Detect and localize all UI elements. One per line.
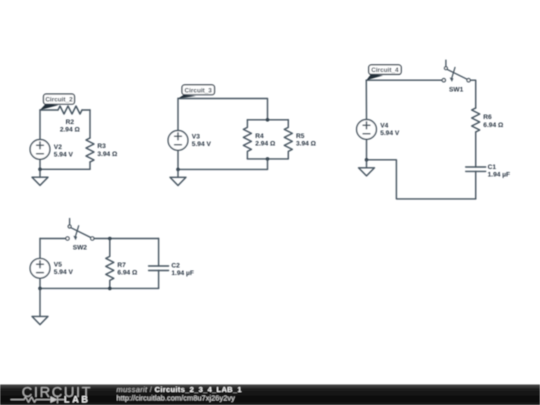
switch SW1 (442, 60, 470, 82)
node parallel top junction (266, 118, 270, 122)
wire top (to SW2) (40, 238, 66, 240)
wire left lower (177, 150, 179, 169)
svg-text:mussarit / Circuits_2_3_4_LAB_: mussarit / Circuits_2_3_4_LAB_1 (117, 385, 242, 394)
node R7 top junction (108, 237, 112, 241)
label C2 value (171, 262, 194, 277)
wire left upper (365, 80, 367, 119)
svg-text:6.94 Ω: 6.94 Ω (117, 270, 138, 277)
wire top (V2 to R2 to right corner) (40, 109, 90, 111)
svg-text:SW2: SW2 (73, 245, 88, 252)
voltage source V4 (357, 119, 377, 139)
wire bottom (40, 168, 90, 170)
wire bottom (178, 168, 268, 170)
wire bottom return (367, 160, 476, 199)
svg-text:http://circuitlab.com/cm8u7xj2: http://circuitlab.com/cm8u7xj26y2vy (117, 394, 236, 403)
svg-text:R7: R7 (117, 262, 126, 269)
svg-text:5.94 V: 5.94 V (54, 151, 74, 158)
svg-text:LAB: LAB (64, 394, 91, 404)
ground (32, 288, 48, 324)
svg-text:1.94 µF: 1.94 µF (171, 270, 194, 277)
wire top (178, 99, 268, 120)
wire parallel top bar (247, 119, 288, 121)
svg-text:Circuit_3: Circuit_3 (185, 87, 213, 94)
wire down to C2 (158, 239, 160, 267)
wire left lower (39, 159, 41, 169)
ground (32, 169, 48, 185)
ground (170, 169, 186, 185)
svg-text:R5: R5 (296, 133, 305, 140)
svg-text:2.94 Ω: 2.94 Ω (255, 140, 276, 147)
node V4 bottom junction (365, 158, 369, 162)
logo diode triangle (51, 396, 58, 403)
svg-text:Circuit_2: Circuit_2 (45, 97, 73, 104)
resistor R7 (106, 239, 114, 289)
label V2 value (54, 144, 74, 158)
svg-text:C1: C1 (488, 164, 497, 171)
switch SW2 (66, 219, 94, 241)
label V5 value (54, 261, 74, 276)
label C1 value (488, 164, 511, 179)
resistor R5 (284, 120, 292, 159)
voltage source V3 (168, 131, 188, 151)
wire left upper (39, 110, 41, 139)
node R7 bottom junction (108, 287, 112, 291)
svg-text:R4: R4 (255, 133, 264, 140)
label Circuit_4 flag (366, 65, 401, 80)
logo wire-resistor-diode glyph (11, 396, 64, 402)
label R5 value (296, 133, 317, 148)
svg-text:6.94 Ω: 6.94 Ω (483, 122, 504, 129)
wire left upper (177, 99, 179, 131)
node bottom-left junction (176, 168, 180, 172)
svg-text:C2: C2 (171, 262, 180, 269)
wire left lower (39, 278, 41, 288)
wire left lower (366, 139, 368, 160)
wire right (down to R3) (89, 110, 91, 138)
node bottom-left junction (38, 168, 42, 172)
svg-text:5.94 V: 5.94 V (380, 130, 400, 137)
resistor R3 (86, 138, 94, 162)
wire right lower (89, 162, 91, 169)
svg-text:V3: V3 (192, 133, 200, 140)
resistor R4 (243, 120, 251, 159)
svg-text:2.94 Ω: 2.94 Ω (60, 126, 81, 133)
label V3 value (192, 133, 212, 148)
svg-text:3.94 Ω: 3.94 Ω (296, 140, 317, 147)
wire SW2 to C2 branch (94, 238, 159, 240)
svg-text:V4: V4 (380, 122, 388, 129)
label R7 value (117, 262, 138, 277)
resistor R6 (472, 108, 480, 132)
svg-text:R3: R3 (97, 143, 106, 150)
wire left upper (39, 239, 41, 259)
voltage source V5 (30, 258, 50, 278)
wire from SW1 to R6 (470, 80, 475, 108)
footer bar (0, 385, 540, 405)
label R2 value (60, 119, 81, 134)
wire bottom (40, 287, 159, 289)
label Circuit_2 flag (40, 94, 75, 110)
ground (359, 160, 375, 176)
svg-text:1.94 µF: 1.94 µF (488, 172, 511, 179)
wire C1 down (475, 171, 477, 199)
label V4 value (380, 122, 400, 137)
wire top (to SW1) (366, 79, 442, 81)
svg-text:V2: V2 (54, 144, 62, 151)
svg-text:R6: R6 (483, 114, 492, 121)
label R4 value (255, 133, 276, 148)
svg-text:3.94 Ω: 3.94 Ω (97, 151, 118, 158)
svg-text:R2: R2 (66, 119, 75, 126)
svg-text:V5: V5 (54, 261, 62, 268)
voltage source V2 (30, 140, 50, 160)
wire down from parallel (267, 159, 269, 170)
wire C2 down (158, 271, 160, 289)
wire parallel bottom bar (247, 158, 288, 160)
label Circuit_3 flag (178, 85, 215, 99)
label R6 value (483, 114, 504, 129)
resistor R2 (58, 106, 82, 114)
svg-text:Circuit_4: Circuit_4 (371, 67, 399, 74)
capacitor C2 (149, 266, 169, 271)
label R3 value (97, 143, 118, 158)
svg-text:SW1: SW1 (449, 86, 464, 93)
wire R6 to C1 (475, 132, 477, 167)
svg-text:5.94 V: 5.94 V (192, 141, 212, 148)
capacitor C1 (466, 167, 486, 171)
node parallel bottom junction (266, 157, 270, 161)
svg-text:5.94 V: 5.94 V (54, 269, 74, 276)
node V5 bottom junction (38, 287, 42, 291)
